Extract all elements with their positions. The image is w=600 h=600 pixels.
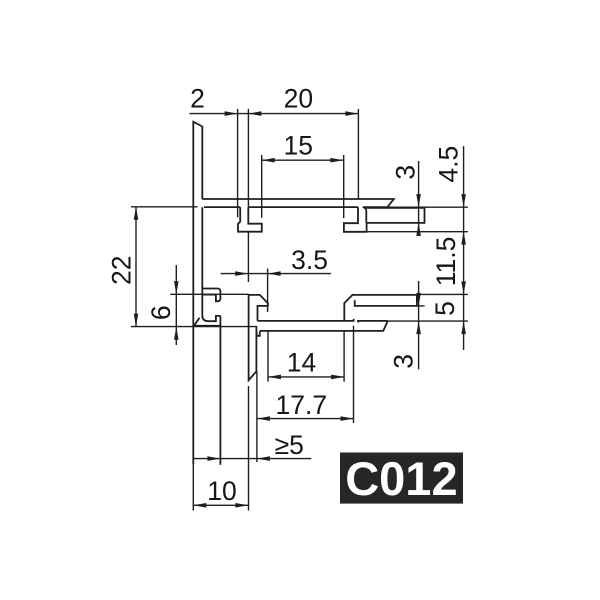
profile: right horizontal bar — [363, 207, 367, 223]
profile: left vertical wall — [193, 122, 202, 465]
svg-text:2: 2 — [190, 83, 205, 113]
dimension 10 arrows — [193, 503, 206, 508]
svg-text:11.5: 11.5 — [431, 237, 461, 287]
right column arrows — [461, 194, 466, 207]
dimension 4.5 / 11.5 / 5 vertical line (right) — [463, 146, 465, 350]
dimension 14 line — [268, 376, 344, 378]
dimension 2 arrows — [225, 111, 238, 116]
svg-text:4.5: 4.5 — [434, 146, 464, 183]
profile: top horizontal plate — [202, 199, 393, 207]
dimension 22 extensions — [131, 206, 198, 208]
svg-text:3.5: 3.5 — [291, 245, 328, 275]
profile: bottom-left leg right edge — [219, 316, 221, 465]
dimension 14 arrows — [268, 375, 281, 380]
svg-text:10: 10 — [207, 476, 236, 506]
dimension 3.5 arrows — [235, 271, 248, 276]
dimension >=5 line — [193, 458, 311, 460]
dimension 6 top extension — [170, 293, 248, 295]
dimension 22 line — [135, 207, 137, 327]
profile: left T-foot under plate — [238, 207, 262, 232]
dimension 3 (bottom right) line — [418, 281, 420, 369]
svg-text:15: 15 — [283, 131, 312, 161]
part number box C012 — [340, 453, 463, 504]
svg-text:14: 14 — [287, 348, 316, 378]
dimension 3.5 extensions — [247, 232, 249, 282]
profile: bottom-right hook — [344, 295, 417, 321]
dimension 2 extension lines — [237, 109, 239, 217]
dimension 10 line — [193, 504, 248, 506]
dimension 3 bottom arrows — [416, 293, 421, 306]
dimension 14 extensions — [267, 331, 269, 381]
dimension >=5 arrows — [207, 456, 220, 461]
right side extension lines — [387, 206, 468, 208]
svg-text:≥5: ≥5 — [275, 430, 304, 460]
dimension 3 bottom extension — [417, 305, 425, 307]
dimension 15 arrows — [262, 158, 275, 163]
dimension 17.7 arrows — [257, 416, 270, 421]
profile: bottom-left hook and stem — [249, 295, 268, 321]
svg-text:C012: C012 — [345, 452, 457, 505]
dimension 6 arrows — [174, 281, 179, 294]
dimension 22 arrows — [134, 207, 139, 220]
dimension 10 extensions — [192, 465, 194, 511]
profile: bottom horizontal plate — [258, 319, 354, 321]
svg-text:17.7: 17.7 — [276, 390, 328, 420]
svg-text:22: 22 — [106, 256, 136, 285]
svg-text:6: 6 — [146, 305, 176, 320]
svg-text:20: 20 — [284, 84, 313, 114]
profile: C-channel bottom outer edge — [194, 318, 200, 327]
profile: bottom plate left underside step — [257, 331, 260, 336]
dimension 6 line — [175, 265, 177, 345]
svg-text:5: 5 — [430, 301, 460, 316]
dimension 2 and 20: top dimension line — [190, 113, 359, 115]
dimension 3 top arrows — [416, 194, 421, 207]
dimension 20 right extension — [357, 109, 359, 199]
dimension 20 arrows — [248, 111, 261, 116]
dimension 15 extensions — [261, 155, 263, 218]
dimension 3 (top right) line — [418, 161, 420, 236]
dimension 15 line — [262, 159, 344, 161]
dimension 3.5 line — [221, 273, 331, 275]
dimension 17.7 extensions — [256, 372, 258, 463]
profile: right T-foot under plate — [344, 207, 367, 232]
profile: screw C-channel on wall — [202, 289, 220, 302]
svg-text:3: 3 — [389, 354, 419, 369]
svg-text:3: 3 — [390, 165, 420, 180]
dimension 17.7 line — [257, 418, 354, 420]
